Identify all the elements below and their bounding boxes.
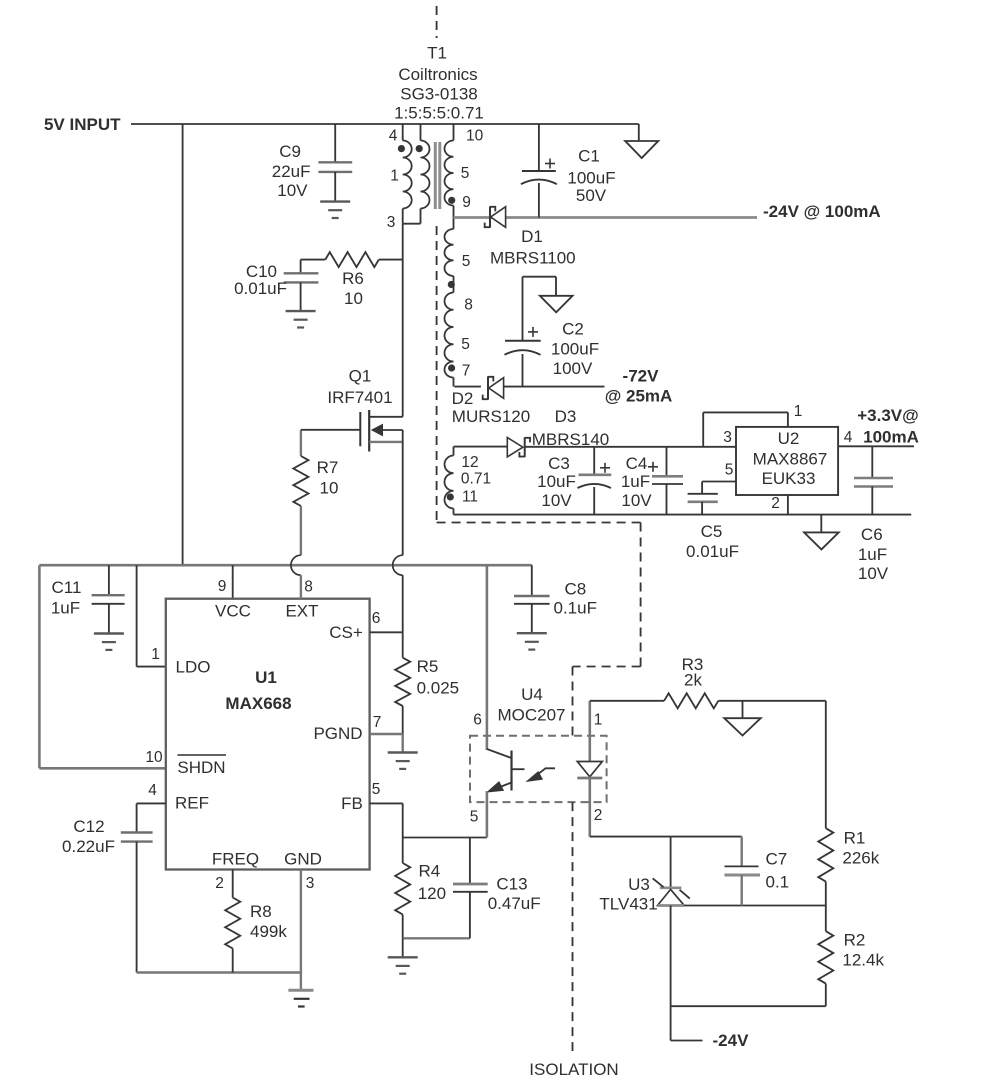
svg-text:D1: D1: [521, 227, 543, 246]
svg-text:@ 25mA: @ 25mA: [605, 387, 673, 406]
svg-text:100uF: 100uF: [551, 340, 599, 359]
svg-text:C1: C1: [578, 147, 600, 166]
svg-text:FB: FB: [341, 794, 363, 813]
svg-text:10: 10: [344, 289, 363, 308]
svg-text:2k: 2k: [684, 671, 702, 690]
svg-text:10: 10: [320, 479, 339, 498]
svg-text:10V: 10V: [541, 491, 572, 510]
svg-text:0.1uF: 0.1uF: [554, 599, 597, 618]
svg-text:0.47uF: 0.47uF: [488, 894, 541, 913]
svg-text:MAX668: MAX668: [225, 694, 291, 713]
svg-text:R8: R8: [250, 902, 272, 921]
svg-text:0.01uF: 0.01uF: [686, 542, 739, 561]
svg-text:Coiltronics: Coiltronics: [398, 65, 477, 84]
svg-text:1: 1: [390, 168, 399, 185]
svg-text:0.22uF: 0.22uF: [62, 837, 115, 856]
svg-text:C2: C2: [562, 319, 584, 338]
svg-text:-24V: -24V: [713, 1031, 750, 1050]
svg-text:U2: U2: [778, 429, 800, 448]
svg-text:-24V @ 100mA: -24V @ 100mA: [763, 202, 881, 221]
svg-text:10V: 10V: [858, 564, 889, 583]
svg-text:1: 1: [594, 712, 603, 729]
svg-text:VCC: VCC: [215, 602, 251, 621]
svg-text:3: 3: [723, 429, 732, 446]
svg-text:2: 2: [771, 495, 780, 512]
svg-text:Q1: Q1: [349, 367, 372, 386]
svg-text:10V: 10V: [621, 491, 652, 510]
svg-text:2: 2: [594, 807, 603, 824]
svg-text:22uF: 22uF: [272, 162, 311, 181]
svg-text:100V: 100V: [553, 359, 593, 378]
svg-text:C7: C7: [766, 850, 788, 869]
svg-text:3: 3: [387, 214, 396, 231]
svg-text:8: 8: [464, 297, 473, 314]
svg-text:226k: 226k: [842, 849, 879, 868]
svg-text:SG3-0138: SG3-0138: [400, 85, 478, 104]
svg-text:R5: R5: [417, 657, 439, 676]
svg-text:PGND: PGND: [313, 724, 362, 743]
svg-text:ISOLATION: ISOLATION: [529, 1060, 618, 1079]
svg-text:MBRS1100: MBRS1100: [490, 249, 576, 268]
svg-text:SHDN: SHDN: [177, 758, 225, 777]
svg-text:1: 1: [151, 646, 160, 663]
svg-text:R6: R6: [342, 269, 364, 288]
svg-text:R1: R1: [844, 829, 866, 848]
svg-text:U4: U4: [521, 685, 543, 704]
svg-text:R7: R7: [317, 458, 339, 477]
svg-text:100uF: 100uF: [567, 169, 615, 188]
svg-text:5: 5: [372, 781, 381, 798]
svg-text:R2: R2: [844, 931, 866, 950]
svg-text:FREQ: FREQ: [212, 850, 259, 869]
svg-text:499k: 499k: [250, 922, 287, 941]
svg-text:4: 4: [844, 429, 853, 446]
svg-text:D3: D3: [555, 407, 577, 426]
svg-text:6: 6: [473, 712, 482, 729]
svg-text:4: 4: [148, 782, 157, 799]
svg-text:1uF: 1uF: [858, 545, 887, 564]
svg-text:1:5:5:5:0.71: 1:5:5:5:0.71: [394, 104, 484, 123]
svg-text:10V: 10V: [277, 181, 308, 200]
svg-text:5V INPUT: 5V INPUT: [44, 115, 121, 134]
svg-text:U1: U1: [255, 668, 277, 687]
svg-text:C4: C4: [626, 454, 648, 473]
svg-text:D2: D2: [452, 389, 474, 408]
svg-text:8: 8: [304, 579, 313, 596]
svg-text:10uF: 10uF: [537, 472, 576, 491]
svg-text:50V: 50V: [576, 186, 607, 205]
svg-text:6: 6: [372, 610, 381, 627]
svg-text:12: 12: [461, 454, 478, 471]
svg-text:10: 10: [145, 749, 163, 766]
svg-text:5: 5: [461, 165, 470, 182]
svg-text:0.025: 0.025: [417, 679, 460, 698]
svg-text:LDO: LDO: [176, 658, 211, 677]
svg-text:-72V: -72V: [623, 367, 660, 386]
svg-text:0.01uF: 0.01uF: [234, 279, 287, 298]
svg-text:1uF: 1uF: [51, 599, 80, 618]
svg-text:4: 4: [389, 128, 398, 145]
svg-text:10: 10: [466, 128, 484, 145]
svg-text:1uF: 1uF: [621, 472, 650, 491]
svg-text:EXT: EXT: [285, 602, 318, 621]
svg-text:C5: C5: [701, 522, 723, 541]
svg-text:R4: R4: [419, 862, 441, 881]
svg-text:5: 5: [461, 336, 470, 353]
svg-text:+3.3V@: +3.3V@: [857, 406, 918, 425]
svg-text:C3: C3: [548, 454, 570, 473]
svg-text:IRF7401: IRF7401: [327, 388, 392, 407]
svg-text:0.71: 0.71: [461, 471, 491, 488]
svg-text:MURS120: MURS120: [452, 407, 530, 426]
svg-text:C8: C8: [565, 580, 587, 599]
svg-text:C13: C13: [496, 875, 527, 894]
svg-text:5: 5: [725, 462, 734, 479]
svg-text:12.4k: 12.4k: [842, 951, 884, 970]
svg-text:11: 11: [462, 489, 478, 506]
svg-text:7: 7: [462, 363, 471, 380]
svg-text:EUK33: EUK33: [762, 469, 816, 488]
svg-text:GND: GND: [284, 850, 322, 869]
svg-text:5: 5: [470, 809, 479, 826]
svg-text:9: 9: [218, 578, 227, 595]
svg-text:5: 5: [462, 253, 471, 270]
svg-text:U3: U3: [628, 875, 650, 894]
svg-text:MOC207: MOC207: [497, 706, 565, 725]
svg-text:0.1: 0.1: [766, 873, 790, 892]
svg-text:TLV431: TLV431: [599, 895, 657, 914]
svg-text:120: 120: [418, 884, 446, 903]
svg-text:MBRS140: MBRS140: [532, 430, 609, 449]
svg-text:C12: C12: [73, 817, 104, 836]
svg-text:1: 1: [794, 403, 803, 420]
svg-text:C9: C9: [279, 142, 301, 161]
svg-text:C11: C11: [52, 578, 82, 597]
svg-text:2: 2: [215, 875, 224, 892]
svg-text:3: 3: [306, 875, 315, 892]
svg-text:9: 9: [462, 194, 471, 211]
svg-text:CS+: CS+: [329, 623, 363, 642]
svg-text:C6: C6: [861, 525, 883, 544]
svg-text:REF: REF: [175, 794, 209, 813]
svg-text:MAX8867: MAX8867: [753, 450, 828, 469]
svg-text:7: 7: [373, 714, 382, 731]
svg-text:T1: T1: [427, 44, 447, 63]
svg-text:100mA: 100mA: [863, 428, 919, 447]
